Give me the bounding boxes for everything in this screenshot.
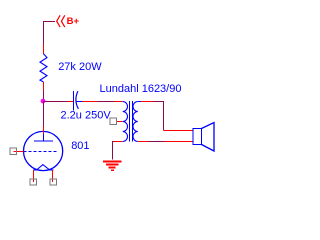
tube V1 filament right pin — [52, 170, 54, 182]
capacitor C1 curved plate — [76, 91, 79, 109]
capacitor C1 right pin — [82, 101, 98, 103]
svg-text:2.2u 250V: 2.2u 250V — [61, 110, 112, 122]
svg-text:801: 801 — [71, 140, 89, 152]
tube V1 grid dashed line — [24, 151, 57, 153]
transformer T1 primary bottom pin — [114, 141, 123, 143]
speaker LS1 bottom pin — [164, 141, 193, 143]
ground symbol — [103, 162, 122, 171]
transformer T1 primary top pin — [115, 101, 123, 103]
capacitor C1 flat plate — [73, 91, 75, 111]
tube V1 filament left terminal square — [30, 179, 36, 185]
wire resistor bottom to junction — [43, 91, 45, 102]
svg-text:B+: B+ — [67, 16, 80, 27]
svg-text:Lundahl 1623/90: Lundahl 1623/90 — [100, 83, 182, 95]
speaker LS1 cone — [202, 123, 215, 152]
tube V1 filament right terminal square — [50, 179, 56, 185]
tube V1 filament leads — [33, 169, 53, 171]
wire secondary top to speaker corner — [153, 102, 164, 131]
transformer T1 secondary bottom pin — [138, 141, 148, 143]
tube V1 grid terminal square — [10, 148, 17, 155]
transformer T1 primary winding — [123, 102, 128, 142]
transformer T1 primary tap pin — [117, 121, 123, 123]
svg-text:27k 20W: 27k 20W — [58, 61, 102, 73]
tube V1 filament — [37, 165, 50, 170]
wire secondary bottom to speaker — [148, 141, 165, 143]
tube V1 filament left pin — [33, 170, 35, 182]
wire junction down to tube plate — [43, 102, 45, 127]
resistor R1 27k 20W zigzag body — [40, 54, 47, 82]
tube V1 plate bar — [34, 140, 53, 142]
wire primary bottom to ground — [113, 142, 115, 160]
speaker LS1 top pin — [164, 130, 194, 132]
wire capacitor to transformer T1 primary — [98, 101, 115, 103]
wire from B+ connector down to resistor R1 — [44, 22, 56, 45]
resistor R1 bottom pin — [43, 82, 45, 91]
speaker LS1 driver rectangle — [193, 129, 202, 145]
tube V1 plate pin — [43, 126, 45, 134]
transformer T1 secondary top pin — [141, 101, 153, 103]
B+ power connector (double chevron) — [57, 15, 65, 27]
tube V1 plate lead — [43, 134, 45, 141]
wire junction to capacitor C1 — [44, 101, 69, 103]
transformer T1 core lines — [130, 101, 133, 142]
tube V1 envelope circle — [23, 131, 62, 170]
resistor R1 top pin — [43, 45, 45, 54]
tube V1 grid pin — [14, 151, 24, 153]
transformer T1 tap terminal square — [110, 118, 117, 125]
transformer T1 secondary winding — [133, 102, 138, 142]
capacitor C1 left pin — [68, 101, 74, 103]
junction node dot — [41, 99, 46, 104]
capacitor C1 right lead — [76, 101, 82, 103]
